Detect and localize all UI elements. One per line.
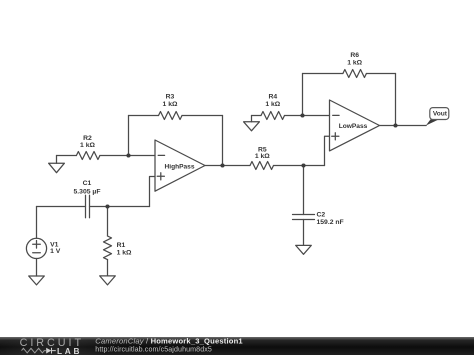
resistor R2 xyxy=(76,152,100,160)
svg-text:R3: R3 xyxy=(166,94,175,101)
wire: V1 top lead xyxy=(36,207,38,239)
wire: U2 output to Vout xyxy=(380,125,427,127)
logo CircuitLab wordmark xyxy=(0,336,110,355)
wire: feedback vertical left R6 xyxy=(302,74,304,116)
wire: V1 bottom lead xyxy=(36,259,38,277)
voltage source V1 xyxy=(26,238,46,258)
wire: R2 ground stem xyxy=(56,156,58,164)
svg-text:C2: C2 xyxy=(317,212,326,219)
op-amp U1 minus sign xyxy=(158,154,164,156)
wire: R3 right lead xyxy=(182,115,223,117)
output flag Vout xyxy=(426,108,449,126)
op-amp U2 LowPass xyxy=(330,100,380,151)
svg-text:1 kΩ: 1 kΩ xyxy=(163,101,178,108)
op-amp U2 plus sign xyxy=(332,133,339,140)
wire: up to plus input of U2 xyxy=(325,136,330,165)
wire: R3 left lead xyxy=(129,115,159,117)
wire: R4 ground stem xyxy=(251,116,253,122)
resistor R3 xyxy=(159,112,183,120)
wire: R1 top lead xyxy=(107,207,109,237)
wire: R4 to U2 inverting input xyxy=(285,115,330,117)
wire: feedback vertical right R3 xyxy=(222,116,224,166)
svg-text:HighPass: HighPass xyxy=(164,163,194,170)
svg-text:1 kΩ: 1 kΩ xyxy=(347,59,362,66)
logo diode xyxy=(46,348,51,354)
wire: ground to R2 xyxy=(57,155,77,157)
ground (left of R4) xyxy=(244,122,260,131)
wire: R6 left lead xyxy=(303,73,343,75)
svg-text:CameronClay / Homework_3_Quest: CameronClay / Homework_3_Question1 xyxy=(95,336,243,345)
svg-text:http://circuitlab.com/c5ajduhu: http://circuitlab.com/c5ajduhum8dx5 xyxy=(95,346,212,354)
svg-text:R6: R6 xyxy=(350,52,359,59)
wire: R2 to op-amp inverting input xyxy=(100,155,155,157)
node: R4/R6 junction xyxy=(300,113,304,117)
wire: R6 right lead xyxy=(366,73,395,75)
op-amp U1 plus sign xyxy=(157,173,164,180)
wire: R5 to plus branch of U2 xyxy=(274,165,325,167)
svg-text:1 kΩ: 1 kΩ xyxy=(80,142,95,149)
resistor R1 xyxy=(104,236,112,260)
ground (below C2) xyxy=(296,245,312,254)
node: U2 output junction xyxy=(393,123,397,127)
V1 minus sign xyxy=(33,252,41,254)
wire: C2 bottom lead xyxy=(303,220,305,246)
capacitor C1 xyxy=(86,195,90,218)
resistor R4 xyxy=(261,112,285,120)
wire: main bottom rail from V1 to C1 xyxy=(37,206,86,208)
V1 plus sign xyxy=(33,241,41,249)
svg-text:R1: R1 xyxy=(117,242,126,249)
svg-text:159.2 nF: 159.2 nF xyxy=(317,219,344,226)
op-amp U2 minus sign xyxy=(333,114,339,116)
op-amp U1 HighPass xyxy=(155,140,205,191)
wire: C1 to noninverting branch xyxy=(90,206,150,208)
wire: feedback vertical right R6 xyxy=(395,74,397,126)
wire: ground to R4 xyxy=(252,115,262,117)
svg-text:LowPass: LowPass xyxy=(339,123,368,130)
node: U1 output junction xyxy=(220,163,224,167)
svg-text:LAB: LAB xyxy=(57,346,82,355)
svg-text:1 kΩ: 1 kΩ xyxy=(265,101,280,108)
node: R5/C2 junction xyxy=(301,163,305,167)
wire: U1 output xyxy=(205,165,250,167)
node: R2/R3 junction at inverting input xyxy=(126,153,130,157)
resistor R5 xyxy=(250,162,274,170)
footer bar xyxy=(0,337,474,355)
wire: C2 top lead xyxy=(303,166,305,215)
wire: up to plus input of U1 xyxy=(150,177,156,207)
logo resistor squiggle xyxy=(22,348,46,353)
node: C1/R1 junction xyxy=(105,204,109,208)
svg-text:5.305 µF: 5.305 µF xyxy=(74,188,101,195)
svg-text:Vout: Vout xyxy=(433,111,448,118)
ground (below V1) xyxy=(29,276,45,285)
wire: feedback vertical left R3 xyxy=(128,116,130,156)
svg-text:1 V: 1 V xyxy=(50,248,61,255)
svg-text:C1: C1 xyxy=(83,180,92,187)
capacitor C2 xyxy=(293,215,315,220)
svg-text:R2: R2 xyxy=(83,135,92,142)
wire: R1 bottom lead xyxy=(107,260,109,276)
svg-text:1 kΩ: 1 kΩ xyxy=(117,250,132,257)
svg-text:R4: R4 xyxy=(268,94,277,101)
resistor R6 xyxy=(343,70,367,78)
ground (left of R2) xyxy=(49,163,65,173)
svg-text:1 kΩ: 1 kΩ xyxy=(255,153,270,160)
ground (below R1) xyxy=(100,276,116,285)
